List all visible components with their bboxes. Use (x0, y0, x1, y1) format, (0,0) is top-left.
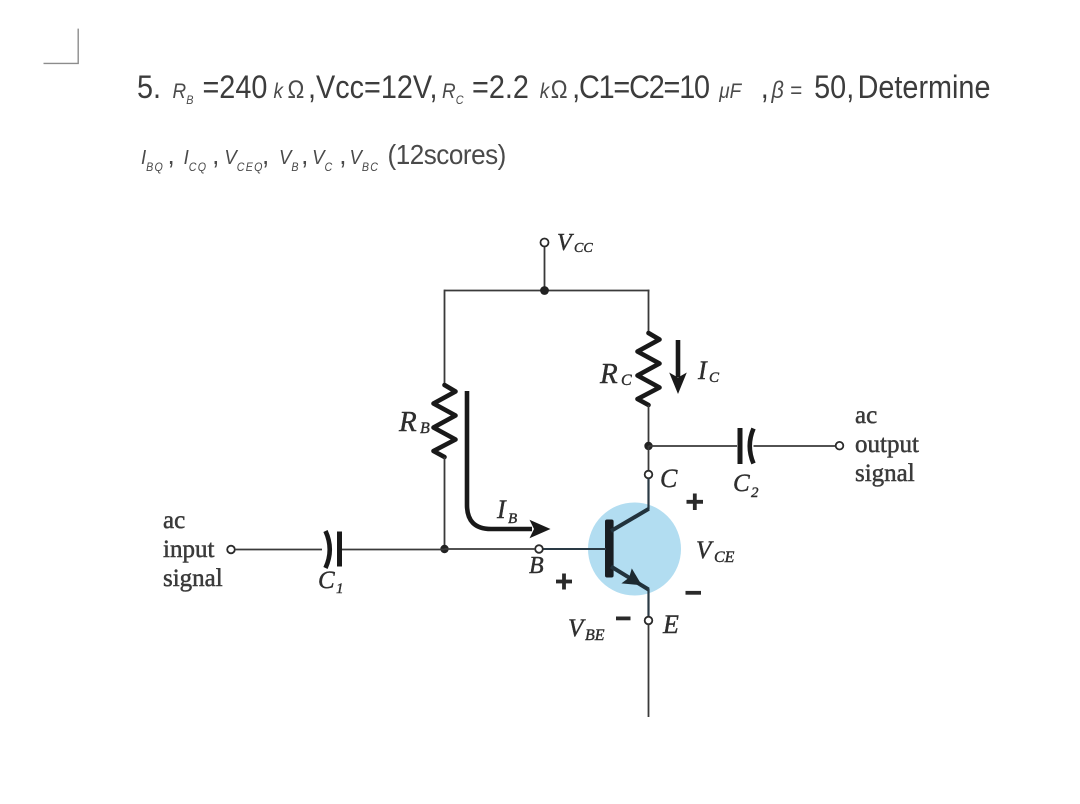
svg-text:C: C (621, 372, 632, 389)
svg-text:R: R (599, 358, 618, 390)
svg-text:BE: BE (585, 627, 605, 644)
svg-text:V: V (568, 615, 586, 642)
svg-text:CE: CE (714, 549, 735, 566)
svg-text:R: R (398, 406, 417, 438)
svg-text:B: B (420, 420, 430, 437)
svg-text:V: V (557, 230, 574, 256)
svg-text:C: C (709, 370, 720, 386)
svg-text:C: C (733, 470, 750, 497)
svg-text:B: B (508, 511, 517, 527)
svg-text:C: C (318, 567, 335, 594)
svg-text:C: C (660, 464, 678, 493)
svg-text:E: E (662, 610, 679, 639)
svg-text:B: B (529, 553, 544, 579)
svg-text:2: 2 (751, 485, 759, 501)
svg-text:V: V (696, 537, 714, 564)
svg-text:CC: CC (574, 241, 593, 256)
svg-text:I: I (496, 495, 507, 524)
svg-text:1: 1 (336, 581, 344, 597)
svg-text:I: I (697, 356, 708, 385)
